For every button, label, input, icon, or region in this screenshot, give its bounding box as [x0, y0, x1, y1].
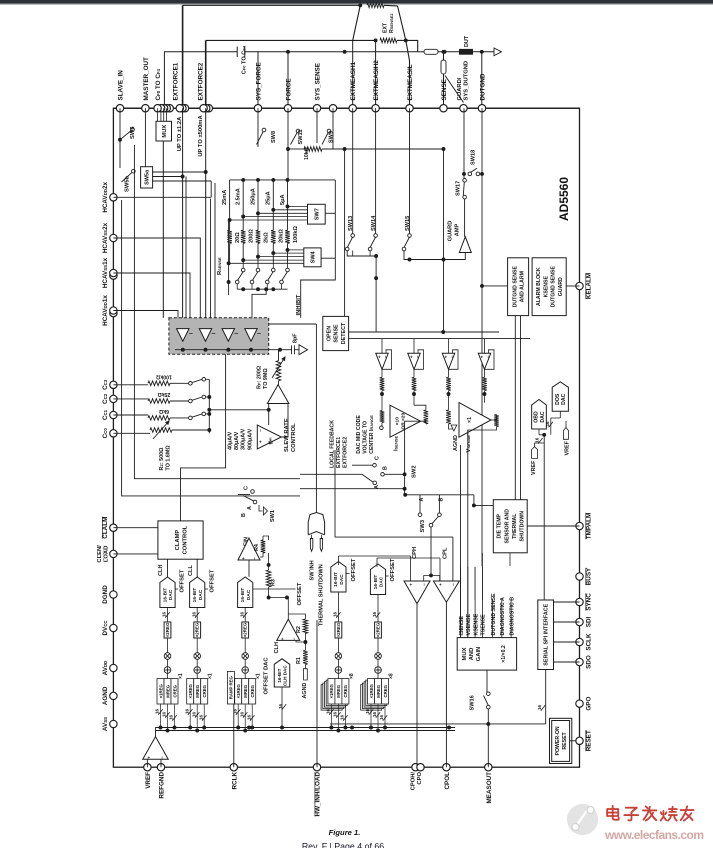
- svg-text:VSENSE: VSENSE: [466, 614, 472, 636]
- svg-text:DIAGNOSTIC A: DIAGNOSTIC A: [500, 597, 506, 636]
- svg-text:CPO: CPO: [417, 772, 423, 785]
- svg-text:B: B: [241, 513, 247, 517]
- svg-text:25μA: 25μA: [266, 191, 272, 205]
- svg-text:DUTGND SENSE: DUTGND SENSE: [512, 266, 518, 308]
- svg-text:16: 16: [239, 611, 244, 617]
- svg-text:16: 16: [191, 711, 196, 717]
- svg-text:AMP: AMP: [455, 224, 461, 237]
- svg-text:EXTMEASH1: EXTMEASH1: [350, 62, 357, 101]
- svg-text:SDI: SDI: [586, 617, 593, 628]
- svg-text:CPOH/: CPOH/: [411, 772, 417, 791]
- svg-text:EXTMEASIL: EXTMEASIL: [407, 64, 414, 100]
- svg-text:×1REG: ×1REG: [188, 684, 193, 699]
- svg-text:×1: ×1: [208, 673, 214, 679]
- svg-text:×1: ×1: [178, 673, 184, 679]
- svg-text:SENSE: SENSE: [334, 324, 340, 343]
- svg-text:RCLK: RCLK: [231, 772, 238, 790]
- svg-text:BUSY: BUSY: [586, 567, 593, 585]
- svg-text:16: 16: [184, 708, 189, 714]
- svg-text:20Ω: 20Ω: [235, 232, 241, 243]
- svg-text:HCAVSS2x: HCAVSS2x: [102, 222, 109, 253]
- svg-text:B: B: [439, 498, 445, 502]
- svg-text:VOLTAGE TO: VOLTAGE TO: [363, 421, 369, 454]
- svg-text:16: 16: [198, 714, 203, 720]
- svg-text:+: +: [409, 355, 414, 358]
- svg-text:900μA/V: 900μA/V: [247, 428, 253, 450]
- svg-text:AGND: AGND: [453, 435, 459, 451]
- svg-text:16: 16: [326, 708, 331, 714]
- svg-text:16-BIT: 16-BIT: [192, 588, 198, 603]
- svg-text:16: 16: [372, 611, 377, 617]
- svg-text:CREG: CREG: [343, 684, 348, 697]
- svg-text:CPOL: CPOL: [444, 772, 451, 790]
- svg-text:MREG: MREG: [195, 684, 200, 698]
- svg-text:CLH DAC: CLH DAC: [282, 665, 287, 686]
- svg-text:25mA: 25mA: [222, 190, 228, 205]
- svg-text:−: −: [486, 355, 491, 358]
- svg-text:16: 16: [333, 711, 338, 717]
- svg-text:16: 16: [155, 708, 160, 714]
- svg-text:R2: R2: [296, 626, 302, 633]
- svg-text:16-BIT: 16-BIT: [162, 588, 168, 603]
- svg-text:MUX: MUX: [462, 647, 468, 660]
- svg-text:DIE TEMP: DIE TEMP: [497, 513, 503, 538]
- svg-text:80μA/V: 80μA/V: [234, 431, 240, 450]
- svg-text:SW2: SW2: [412, 465, 418, 478]
- svg-text:CLH: CLH: [158, 565, 164, 577]
- svg-text:AVDD: AVDD: [102, 661, 109, 676]
- svg-text:10kΩ: 10kΩ: [304, 147, 310, 160]
- svg-text:SW1: SW1: [270, 510, 276, 522]
- svg-text:AGND: AGND: [102, 686, 109, 705]
- svg-text:VREF: VREF: [565, 440, 571, 455]
- svg-text:16-BIT: 16-BIT: [373, 575, 379, 590]
- svg-text:EXTFORCE1: EXTFORCE1: [336, 437, 342, 468]
- svg-text:×2REG: ×2REG: [195, 622, 200, 637]
- svg-text:+: +: [377, 355, 382, 358]
- svg-text:OBD: OBD: [534, 411, 540, 423]
- svg-text:OPEN: OPEN: [326, 326, 332, 341]
- svg-text:A: A: [247, 506, 253, 510]
- svg-text:DIAGNOSTIC B: DIAGNOSTIC B: [509, 597, 515, 636]
- svg-text:CC0: CC0: [102, 428, 109, 439]
- svg-text:+: +: [147, 756, 152, 759]
- svg-text:16: 16: [162, 611, 167, 617]
- svg-text:−: −: [159, 756, 164, 759]
- svg-text:REFGND: REFGND: [159, 772, 166, 799]
- svg-text:AD5560: AD5560: [557, 177, 571, 221]
- svg-text:DAC MID CODE: DAC MID CODE: [356, 415, 362, 454]
- svg-text:OFFSET: OFFSET: [180, 569, 186, 592]
- svg-text:EXT: EXT: [383, 22, 389, 33]
- svg-text:TO 1.6MΩ: TO 1.6MΩ: [166, 445, 172, 471]
- svg-text:DAC: DAC: [198, 589, 204, 600]
- svg-text:+: +: [258, 440, 263, 443]
- svg-text:ALARM BLOCK: ALARM BLOCK: [536, 267, 542, 306]
- svg-text:×1REG: ×1REG: [236, 684, 241, 699]
- svg-text:DUTGND: DUTGND: [479, 73, 486, 100]
- svg-text:−: −: [451, 583, 456, 586]
- svg-text:DAC: DAC: [540, 411, 546, 422]
- svg-text:INHIBIT: INHIBIT: [296, 294, 302, 315]
- svg-text:MREG: MREG: [243, 684, 248, 698]
- svg-text:DAC: DAC: [246, 589, 252, 600]
- svg-text:CC1: CC1: [102, 409, 109, 420]
- svg-text:SW8: SW8: [271, 131, 277, 143]
- svg-text:C: C: [244, 486, 250, 490]
- svg-text:GUARD: GUARD: [558, 277, 564, 296]
- svg-text:DAC: DAC: [168, 589, 174, 600]
- svg-text:GPO: GPO: [586, 697, 593, 711]
- svg-text:GUARD/: GUARD/: [457, 77, 463, 100]
- svg-text:16-BIT: 16-BIT: [240, 588, 246, 603]
- svg-text:CREG: CREG: [250, 684, 255, 697]
- svg-text:FORCE: FORCE: [285, 78, 292, 100]
- svg-text:DOS: DOS: [555, 393, 561, 405]
- svg-text:HCAVSS1x: HCAVSS1x: [102, 257, 109, 288]
- svg-text:EXTFORCE2: EXTFORCE2: [198, 62, 205, 100]
- svg-text:RESET: RESET: [562, 731, 568, 749]
- svg-text:SLEW RATE: SLEW RATE: [284, 418, 290, 452]
- svg-text:EXTFORCE1: EXTFORCE1: [173, 62, 180, 100]
- svg-text:×8: ×8: [349, 673, 355, 679]
- svg-text:MREG: MREG: [165, 684, 170, 698]
- svg-text:TMPALM: TMPALM: [586, 513, 593, 539]
- svg-text:×2REG: ×2REG: [336, 622, 341, 637]
- svg-text:AND: AND: [469, 648, 475, 661]
- svg-text:16: 16: [162, 711, 167, 717]
- svg-text:SW15: SW15: [405, 216, 411, 231]
- svg-text:CLH: CLH: [274, 642, 280, 654]
- svg-text:100kΩ: 100kΩ: [156, 373, 172, 379]
- svg-text:RAMP REG: RAMP REG: [229, 676, 234, 700]
- svg-text:MREG: MREG: [336, 684, 341, 698]
- svg-text:RESET: RESET: [586, 730, 593, 751]
- svg-text:+: +: [443, 355, 448, 358]
- svg-text:25kΩ: 25kΩ: [158, 391, 171, 397]
- svg-text:Figure 1.: Figure 1.: [329, 828, 361, 837]
- svg-text:−: −: [292, 637, 297, 640]
- svg-text:MEASOUT: MEASOUT: [486, 772, 493, 804]
- svg-text:MASTER_OUT: MASTER_OUT: [143, 57, 150, 101]
- svg-text:−: −: [450, 355, 455, 358]
- svg-text:www.elecfans.com: www.elecfans.com: [604, 828, 704, 842]
- svg-text:SENSOR AND: SENSOR AND: [504, 509, 510, 544]
- svg-text:×2REG: ×2REG: [165, 622, 170, 637]
- svg-text:RZ: 500Ω: RZ: 500Ω: [159, 447, 165, 471]
- svg-text:KELALM: KELALM: [586, 273, 593, 299]
- svg-text:−: −: [258, 429, 263, 432]
- svg-text:16: 16: [239, 711, 244, 717]
- svg-text:DUTGND SENSE: DUTGND SENSE: [551, 266, 557, 308]
- svg-text:×1: ×1: [467, 417, 473, 423]
- svg-text:16: 16: [372, 711, 377, 717]
- svg-text:HCAVDD2x: HCAVDD2x: [102, 181, 109, 212]
- svg-text:−: −: [415, 355, 420, 358]
- svg-text:SW7: SW7: [314, 208, 320, 220]
- svg-text:16: 16: [191, 611, 196, 617]
- svg-text:+: +: [409, 583, 414, 586]
- svg-text:SENSE: SENSE: [441, 79, 448, 100]
- svg-text:+: +: [280, 637, 285, 640]
- svg-text:CLALM: CLALM: [102, 517, 109, 539]
- svg-text:16: 16: [379, 714, 384, 720]
- svg-text:5μA: 5μA: [280, 194, 286, 205]
- svg-text:SDO: SDO: [586, 655, 593, 669]
- svg-text:SERIAL SPI INTERFACE: SERIAL SPI INTERFACE: [544, 603, 550, 665]
- svg-text:16: 16: [333, 611, 338, 617]
- svg-text:16: 16: [246, 714, 251, 720]
- svg-text:RP: 200Ω: RP: 200Ω: [257, 365, 263, 389]
- svg-text:+: +: [479, 355, 484, 358]
- svg-text:CONTROL: CONTROL: [291, 423, 297, 452]
- svg-text:A: A: [419, 498, 425, 502]
- svg-text:DETECT: DETECT: [341, 322, 347, 344]
- svg-text:THERMAL SHUTDOWN: THERMAL SHUTDOWN: [319, 564, 325, 626]
- svg-text:+: +: [438, 583, 443, 586]
- svg-text:SW13: SW13: [348, 216, 354, 231]
- svg-text:SW4: SW4: [310, 250, 316, 263]
- svg-text:16: 16: [537, 704, 542, 710]
- svg-text:2.5mA: 2.5mA: [236, 188, 242, 205]
- svg-text:×1REG: ×1REG: [329, 684, 334, 699]
- svg-text:CLAMP: CLAMP: [175, 530, 181, 551]
- svg-text:MREG: MREG: [376, 684, 381, 698]
- svg-text:OFFSET: OFFSET: [210, 569, 216, 592]
- svg-text:B: B: [383, 466, 389, 470]
- svg-text:CONTROL: CONTROL: [182, 525, 188, 554]
- svg-text:16-BIT: 16-BIT: [333, 572, 339, 587]
- svg-text:AVSS: AVSS: [102, 717, 109, 731]
- svg-text:ISENSE: ISENSE: [459, 616, 465, 636]
- svg-text:×1: ×1: [256, 673, 262, 679]
- svg-text:DVCC: DVCC: [102, 620, 109, 636]
- svg-text:DAC: DAC: [339, 574, 345, 585]
- svg-text:SW5b: SW5b: [125, 175, 131, 192]
- svg-text:SHUTDOWN: SHUTDOWN: [519, 511, 525, 542]
- svg-text:UP TO ±500mA: UP TO ±500mA: [198, 115, 204, 157]
- svg-text:GAIN: GAIN: [476, 647, 482, 662]
- svg-text:2kΩ: 2kΩ: [263, 232, 269, 243]
- svg-text:×1REG: ×1REG: [158, 684, 163, 699]
- svg-text:CREG: CREG: [383, 684, 388, 697]
- svg-text:R3: R3: [271, 579, 277, 586]
- svg-text:TSENSE: TSENSE: [481, 614, 487, 636]
- svg-text:+: +: [241, 557, 246, 560]
- svg-text:CPH: CPH: [412, 547, 418, 559]
- svg-text:OFFSET: OFFSET: [297, 582, 303, 605]
- svg-text:GUARD: GUARD: [448, 221, 454, 242]
- svg-text:EXTFORCE2: EXTFORCE2: [343, 437, 349, 468]
- svg-text:SYS_SENSE: SYS_SENSE: [314, 63, 321, 100]
- svg-text:16: 16: [278, 703, 283, 709]
- svg-text:250μA: 250μA: [250, 188, 256, 205]
- svg-text:OFFSET: OFFSET: [351, 558, 357, 581]
- svg-text:16: 16: [545, 421, 550, 427]
- svg-text:−: −: [422, 583, 427, 586]
- svg-text:×10: ×10: [395, 417, 401, 425]
- svg-text:CC2: CC2: [102, 393, 109, 404]
- svg-text:CF0 TO CF4: CF0 TO CF4: [155, 68, 162, 100]
- svg-text:CLL: CLL: [188, 565, 194, 576]
- svg-text:300μA/V: 300μA/V: [241, 428, 247, 450]
- svg-text:100kΩ: 100kΩ: [293, 226, 299, 243]
- svg-text:OFFSET DAC: OFFSET DAC: [264, 657, 270, 695]
- svg-text:×2REG: ×2REG: [376, 622, 381, 637]
- svg-text:CLEN/: CLEN/: [97, 545, 103, 563]
- svg-text:16: 16: [340, 714, 345, 720]
- svg-text:6kΩ: 6kΩ: [159, 408, 169, 414]
- svg-text:SW16: SW16: [470, 695, 476, 710]
- svg-text:HW_INH/LOAD: HW_INH/LOAD: [315, 772, 322, 817]
- svg-text:SW9: SW9: [329, 131, 335, 143]
- svg-text:SW5a: SW5a: [145, 169, 151, 185]
- svg-text:200Ω: 200Ω: [249, 229, 255, 243]
- svg-text:20kΩ: 20kΩ: [279, 229, 285, 243]
- svg-text:40μA/V: 40μA/V: [228, 431, 234, 450]
- svg-text:SW14: SW14: [371, 215, 377, 231]
- svg-text:KSENSE: KSENSE: [543, 275, 549, 297]
- svg-text:SW6: SW6: [130, 126, 136, 139]
- svg-text:−: −: [383, 355, 388, 358]
- svg-text:CREG: CREG: [202, 684, 207, 697]
- svg-text:SW17: SW17: [456, 181, 462, 196]
- svg-text:DAC: DAC: [379, 576, 385, 587]
- svg-text:MUX: MUX: [162, 125, 168, 138]
- svg-text:16: 16: [535, 437, 540, 443]
- svg-text:TO 9MΩ: TO 9MΩ: [263, 368, 269, 389]
- svg-text:VREF: VREF: [531, 460, 537, 475]
- svg-text:AGND: AGND: [302, 683, 308, 699]
- svg-text:SW3: SW3: [420, 519, 426, 532]
- svg-text:DAC: DAC: [561, 393, 567, 404]
- svg-text:16: 16: [232, 708, 237, 714]
- svg-text:CC3: CC3: [102, 379, 109, 390]
- svg-text:THERMAL: THERMAL: [512, 513, 518, 539]
- svg-text:R1: R1: [296, 657, 302, 664]
- svg-text:C: C: [375, 456, 381, 460]
- svg-text:CREG: CREG: [172, 684, 177, 697]
- svg-text:EXTMEASIH2: EXTMEASIH2: [373, 60, 380, 101]
- svg-text:AND ALARM: AND ALARM: [519, 271, 525, 302]
- svg-text:DUTGND SENSE: DUTGND SENSE: [491, 593, 497, 636]
- svg-text:SYS_DUTGND: SYS_DUTGND: [464, 61, 470, 101]
- svg-text:8pF: 8pF: [293, 333, 299, 343]
- svg-text:16-BIT: 16-BIT: [277, 668, 282, 682]
- svg-text:×1/×0.2: ×1/×0.2: [501, 645, 507, 663]
- svg-text:SLAVE_IN: SLAVE_IN: [117, 70, 124, 101]
- svg-text:OFFSET: OFFSET: [390, 558, 396, 581]
- svg-text:16: 16: [169, 714, 174, 720]
- svg-text:−: −: [252, 557, 257, 560]
- svg-text:R4: R4: [254, 544, 260, 551]
- svg-text:Rev. F | Page 4 of 66: Rev. F | Page 4 of 66: [302, 842, 384, 849]
- svg-text:DUT: DUT: [464, 35, 470, 47]
- svg-text:SYS_FORCE: SYS_FORCE: [255, 62, 262, 100]
- svg-text:SYNC: SYNC: [586, 593, 593, 611]
- svg-text:×2REG: ×2REG: [243, 622, 248, 637]
- svg-text:SW11: SW11: [298, 130, 304, 145]
- svg-text:SW18: SW18: [471, 150, 477, 165]
- svg-text:×1REG: ×1REG: [369, 684, 374, 699]
- svg-text:×8: ×8: [389, 673, 395, 679]
- svg-text:16: 16: [365, 708, 370, 714]
- svg-text:SW INH: SW INH: [310, 560, 316, 580]
- svg-text:HCAVDD1x: HCAVDD1x: [102, 295, 109, 326]
- svg-text:LOAD: LOAD: [104, 546, 110, 562]
- svg-text:KSENSE: KSENSE: [473, 613, 479, 635]
- svg-text:CPL: CPL: [443, 547, 449, 559]
- svg-text:DGND: DGND: [102, 585, 109, 604]
- svg-text:POWER-ON: POWER-ON: [555, 726, 561, 755]
- svg-text:VREF: VREF: [145, 772, 152, 789]
- svg-text:SCLK: SCLK: [586, 633, 593, 651]
